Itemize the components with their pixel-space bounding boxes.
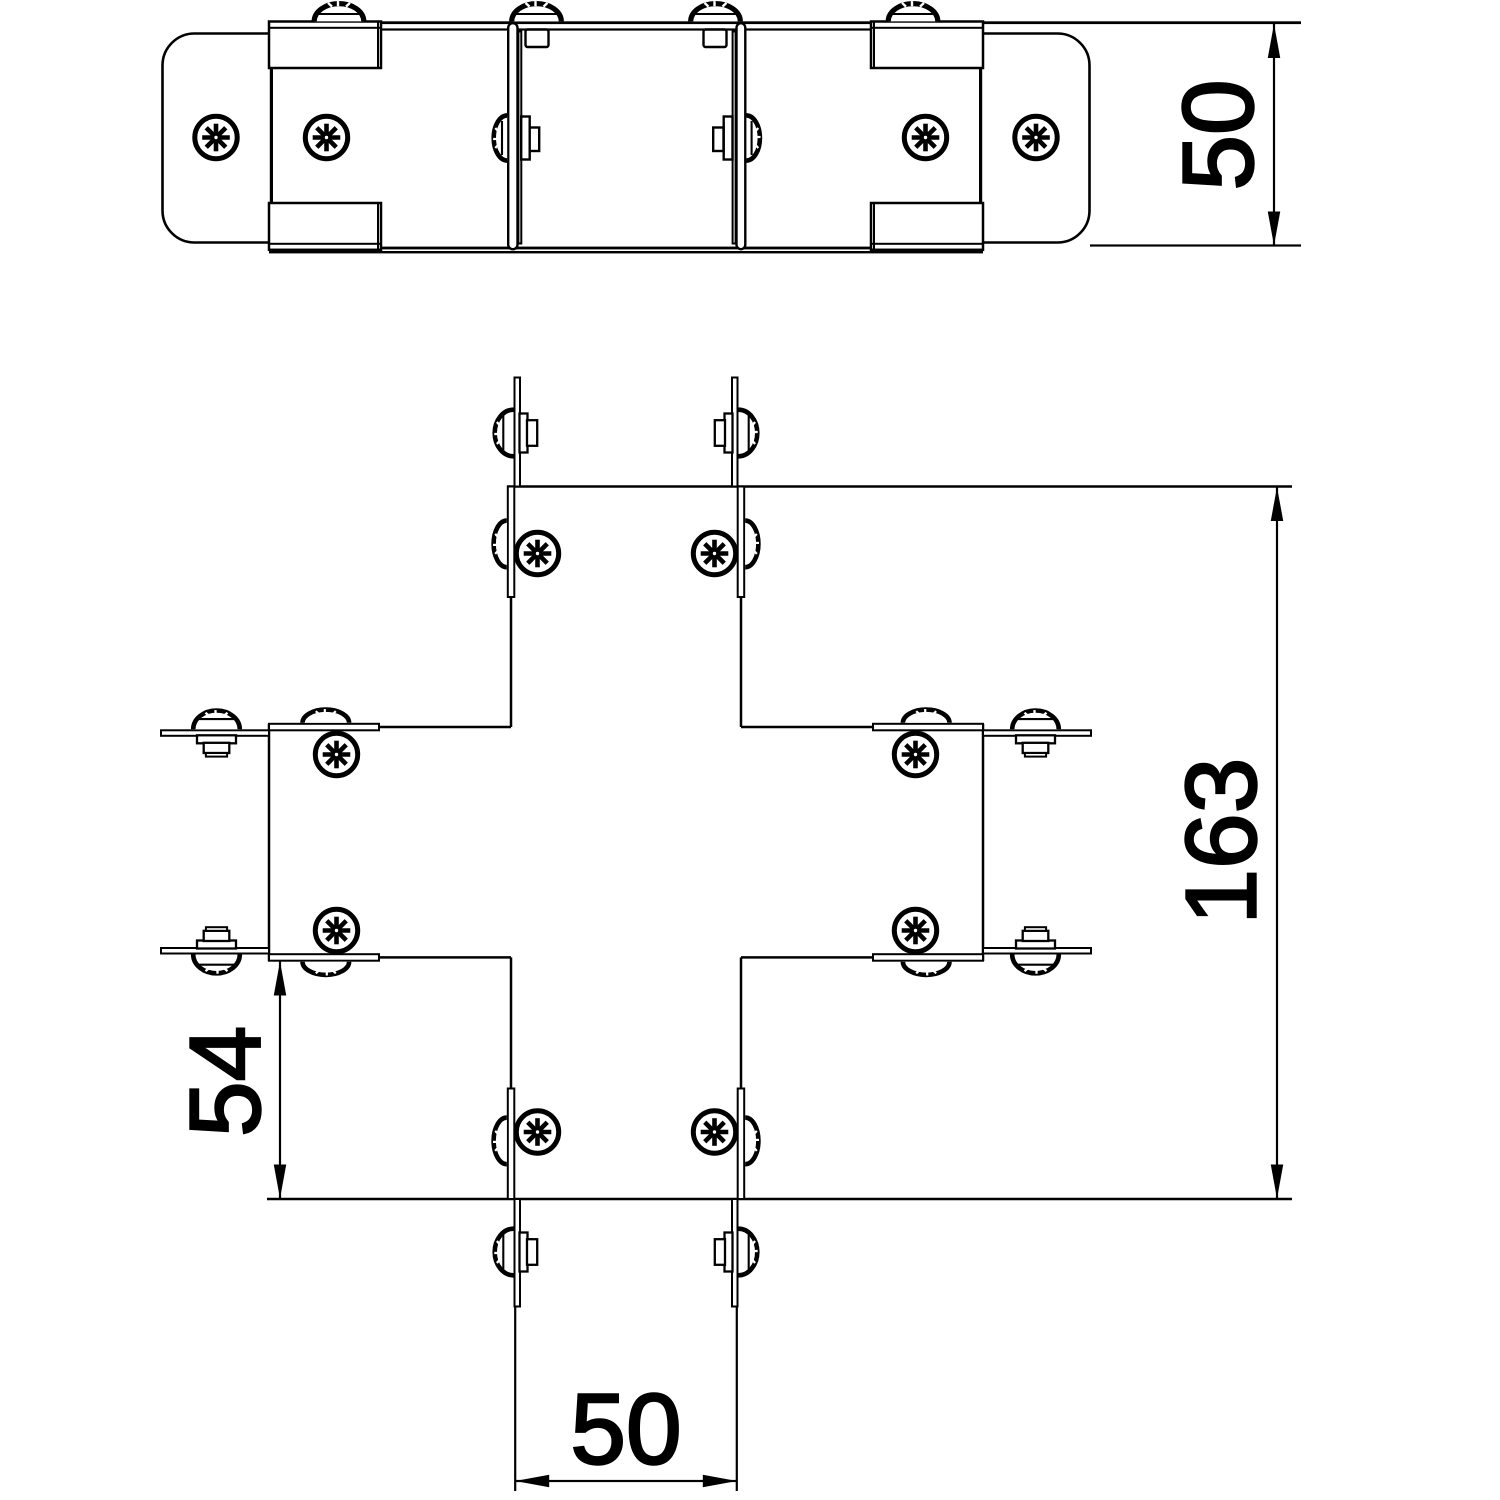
svg-text:50: 50 bbox=[570, 1373, 681, 1485]
svg-text:50: 50 bbox=[1163, 79, 1275, 190]
svg-text:54: 54 bbox=[169, 1026, 281, 1137]
svg-text:163: 163 bbox=[1166, 758, 1278, 925]
